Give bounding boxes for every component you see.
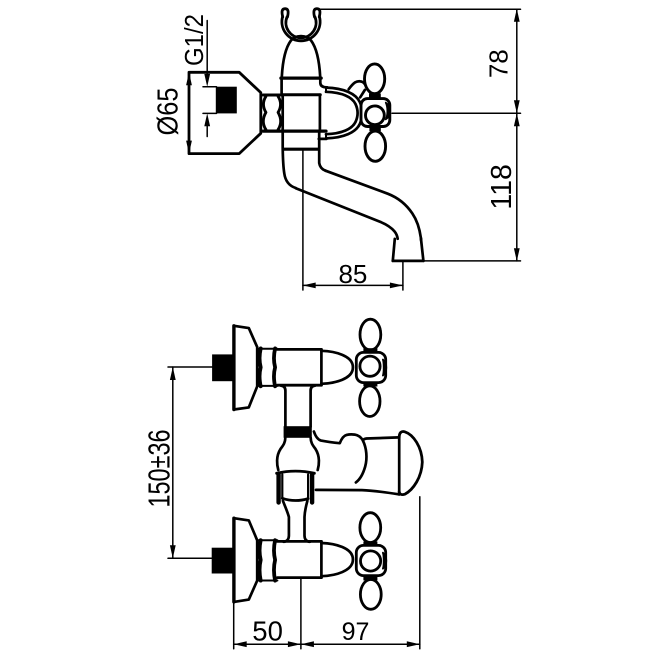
- svg-text:G1/2: G1/2: [179, 14, 209, 66]
- collar bottom line: [257, 580, 277, 582]
- spout mouth left side: [393, 239, 395, 261]
- spout neck bottom edge: [316, 490, 399, 495]
- dim line hook top extension: [320, 8, 521, 10]
- dim 150 bottom extension: [168, 557, 212, 559]
- spout plan view: [314, 432, 422, 495]
- arrow left dim85: [303, 283, 316, 289]
- spout mouth bottom line: [393, 259, 424, 262]
- inlet connector top line: [263, 94, 282, 97]
- collar bottom line: [257, 385, 277, 387]
- body right edge upper: [319, 95, 322, 130]
- handle upper neck band: [369, 93, 381, 97]
- svg-text:118: 118: [486, 164, 518, 209]
- arrow down G12: [204, 74, 210, 87]
- shower hook inner arc: [286, 17, 316, 38]
- svg-text:Ø65: Ø65: [153, 88, 185, 136]
- handle screw circle: [366, 106, 385, 125]
- spout end cap left vertical: [398, 438, 401, 495]
- handle lower neck band: [369, 128, 380, 132]
- handle upper arm ellipse: [365, 64, 385, 94]
- tube upper right with fillet: [311, 386, 315, 427]
- neck converge right: [305, 501, 310, 542]
- body to bonnet bottom line: [319, 138, 327, 141]
- arrow up at hook line: [514, 9, 520, 22]
- inner piece bottom arch: [282, 498, 308, 500]
- bonnet base vertical: [320, 349, 323, 385]
- body right edge lower + fillet into spout top: [319, 133, 325, 171]
- dome top body: [282, 36, 320, 77]
- handle centre extension: [392, 112, 521, 114]
- screw circle: [361, 551, 381, 571]
- dim 150 line: [172, 367, 174, 558]
- inner piece left: [281, 475, 283, 499]
- right dimension line 78/118: [516, 9, 518, 261]
- dim 97 right extension: [419, 497, 421, 649]
- shower hook left ear loop: [282, 9, 288, 17]
- handle bonnet outer arc: [326, 88, 362, 139]
- arrow up from handle line: [514, 113, 520, 126]
- body left edge upper: [281, 95, 284, 130]
- cup rim arch: [277, 471, 315, 473]
- diverter bulge left: [277, 438, 285, 470]
- body bottom thick line: [283, 148, 318, 151]
- lower arm ellipse: [360, 386, 380, 417]
- G1/2 extension bottom: [203, 112, 217, 114]
- middle column between valves: [277, 386, 319, 542]
- bonnet dome: [321, 543, 353, 576]
- shower hook outer arc: [282, 17, 320, 41]
- hub rounded square: [356, 545, 385, 575]
- valve joint thick line: [263, 130, 326, 133]
- G1/2 leader line upper: [206, 21, 208, 81]
- spout end cap outline: [399, 432, 422, 495]
- dim 85 right extension: [402, 262, 404, 291]
- handle rear arm lower edge: [360, 90, 365, 97]
- arrow right dim85: [390, 283, 403, 289]
- inner piece right: [307, 475, 309, 499]
- arrow right 50: [288, 641, 301, 647]
- upper neck band: [363, 542, 377, 546]
- arrow down O65: [186, 141, 192, 154]
- arrow up G12: [204, 113, 210, 126]
- hub end cap dark: [383, 360, 386, 376]
- valve body bottom line: [277, 576, 321, 579]
- spout bottom extension: [424, 260, 521, 262]
- lower neck band: [363, 577, 377, 581]
- svg-text:50: 50: [252, 616, 283, 647]
- G1/2 extension top: [203, 86, 217, 88]
- collar left bar: [260, 540, 261, 580]
- screw circle: [360, 356, 380, 376]
- handle rear arm diagonal: [349, 81, 367, 89]
- valve body bottom line: [277, 384, 321, 387]
- spout mouth right side: [421, 238, 424, 261]
- escutcheon flange top: [234, 326, 257, 410]
- collar top line: [257, 539, 277, 541]
- arrow left 50: [234, 641, 247, 647]
- arrow down 150: [170, 545, 176, 558]
- arrow up 150: [170, 367, 176, 380]
- dome base line: [281, 76, 321, 79]
- top valve: [212, 319, 386, 416]
- handle hub end cap dark: [386, 103, 391, 120]
- flange wall edge thick: [232, 326, 235, 410]
- dim O65 line (flange left edge): [188, 72, 190, 153]
- inlet connector right wavy edge: [278, 96, 281, 129]
- arrow down at spout line: [514, 248, 520, 261]
- cup right bar: [310, 475, 314, 503]
- valve body top line: [277, 540, 321, 543]
- arrow left 97: [301, 641, 314, 647]
- bonnet base vertical: [320, 541, 323, 577]
- supply black square: [212, 354, 233, 381]
- wall flange outline: [189, 72, 261, 153]
- svg-text:97: 97: [342, 618, 370, 646]
- spout top edge: [326, 171, 422, 241]
- lower neck band: [363, 383, 377, 387]
- escutcheon flange bottom: [234, 518, 257, 602]
- upper arm ellipse: [360, 513, 381, 543]
- lower arm ellipse: [360, 580, 381, 610]
- body left edge lower + fillet into spout underside: [283, 133, 296, 189]
- band right side with fillet to bonnet: [320, 78, 327, 87]
- dim 50/97 middle extension: [300, 579, 302, 649]
- arrow up O65: [186, 72, 192, 85]
- handle lower arm ellipse: [365, 131, 386, 161]
- flange wall edge thick: [232, 518, 235, 602]
- inlet connector left wavy edge: [263, 96, 266, 129]
- spout bottom edge: [296, 188, 398, 239]
- cup left bar: [276, 475, 280, 503]
- shower hook right ear loop: [314, 9, 320, 17]
- handle bonnet inner arc: [326, 92, 358, 134]
- handle hub rounded square: [361, 99, 390, 127]
- hub end cap dark: [383, 553, 386, 569]
- neck converge left: [283, 501, 289, 542]
- svg-text:78: 78: [484, 49, 514, 78]
- svg-text:85: 85: [338, 259, 367, 289]
- bonnet dome: [321, 351, 353, 384]
- spout neck top edge with diverter knob hump: [314, 432, 399, 444]
- wall thread black square: [216, 87, 237, 114]
- dim 85 left extension: [302, 150, 304, 290]
- hub rounded square: [356, 352, 385, 382]
- dim 50 left extension: [233, 603, 235, 649]
- svg-text:150±36: 150±36: [142, 430, 177, 508]
- arrow right 97: [407, 641, 420, 647]
- band left side: [280, 78, 283, 95]
- collar right bar: [274, 540, 275, 580]
- dim 85 line: [303, 284, 403, 286]
- valve body top line: [277, 348, 321, 351]
- dim 150 top extension: [168, 366, 213, 368]
- spout cone transition arc: [356, 440, 367, 482]
- tube mounting black band: [284, 426, 312, 438]
- upper neck band: [363, 348, 377, 352]
- G1/2 leader line lower: [206, 120, 208, 137]
- upper arm ellipse: [360, 319, 381, 350]
- arrow down to handle line: [514, 100, 520, 113]
- collar right bar: [274, 348, 275, 386]
- tube upper left with fillet: [281, 386, 285, 427]
- bottom valve: [212, 513, 387, 610]
- bonnet left closures: [325, 88, 327, 139]
- band bottom line: [282, 93, 320, 96]
- bottom dim line: [234, 643, 420, 645]
- diverter bulge right: [311, 438, 319, 470]
- supply black square: [212, 548, 233, 574]
- collar top line: [257, 348, 277, 350]
- collar left bar: [260, 348, 261, 386]
